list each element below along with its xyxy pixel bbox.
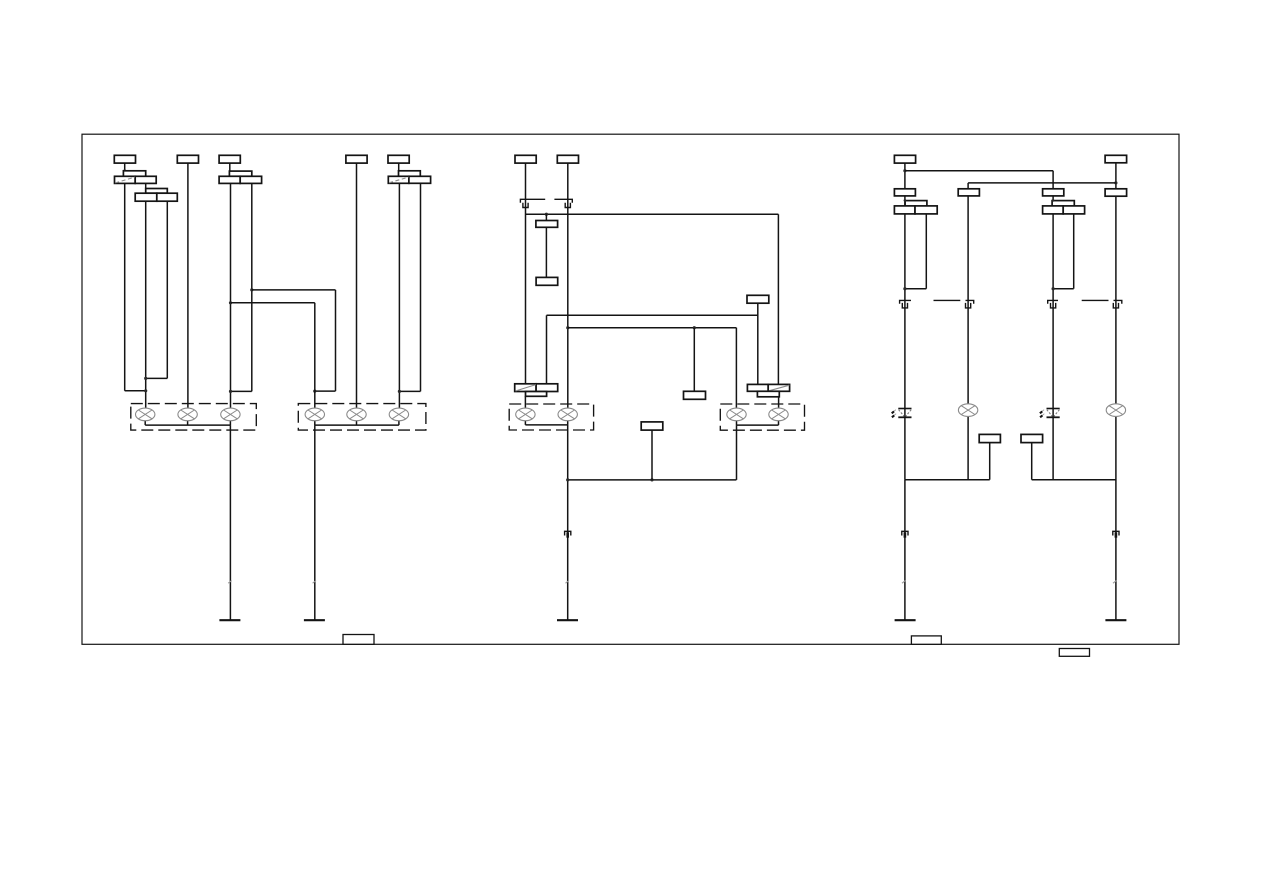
- connector T5: [388, 155, 409, 163]
- lamp L1: [136, 408, 155, 421]
- wire F6 stub: [989, 443, 991, 480]
- lamp L9: [516, 408, 535, 421]
- connector T2: [177, 155, 198, 163]
- wire branch B down to lamp L4: [314, 303, 316, 409]
- junction T9 rail: [1114, 181, 1117, 184]
- wire tap to fuse: [545, 214, 547, 220]
- switch S3 contact left: [219, 176, 240, 183]
- junction L6 feed: [398, 390, 401, 393]
- lamp L6: [389, 408, 408, 421]
- lamp L12: [1106, 404, 1125, 417]
- wire lamp L1 stub: [144, 421, 146, 426]
- wire lamp L4 stub: [314, 421, 316, 426]
- wire S3 right down: [251, 183, 253, 391]
- wire rail y183 down: [967, 183, 969, 189]
- connector B: [958, 189, 979, 196]
- connector T4: [346, 155, 367, 163]
- wire branch A horizontal: [252, 289, 336, 291]
- wire elbow S3 right join: [231, 390, 252, 392]
- wire T4 to lamp L5: [356, 163, 358, 408]
- wire box4 down: [736, 425, 738, 480]
- wire lamp L7 stub: [736, 421, 738, 426]
- switch S4 armature: [399, 171, 421, 177]
- wire return bus: [568, 479, 737, 481]
- wire S8 left down: [1052, 214, 1054, 480]
- wire Tm down to switch S6: [757, 303, 759, 384]
- inline connector C6 male: [1051, 303, 1056, 308]
- inline connector C5 male: [966, 303, 971, 308]
- wire lamp L3 stub: [229, 421, 231, 426]
- junction fuse tap: [545, 213, 548, 216]
- inline connector C8: [902, 531, 908, 537]
- border frame: [82, 134, 1179, 644]
- connector on frame bottom right: [911, 636, 941, 644]
- wire lamp L2 stub: [187, 421, 189, 426]
- inline connector C4 link: [934, 299, 961, 301]
- switch S4 contact left: [388, 176, 409, 183]
- wire return bus right 2: [1032, 479, 1116, 481]
- switch S2 contact left: [135, 193, 157, 201]
- switch S1 contact left: [115, 176, 136, 183]
- wire branch B horizontal: [231, 302, 315, 304]
- switch S1 contact right: [135, 176, 156, 183]
- connector F6: [979, 434, 1000, 442]
- connector T3: [219, 155, 240, 163]
- connector on frame bottom left: [343, 635, 374, 645]
- inline connector C6 link: [1082, 299, 1109, 301]
- lamp L8: [769, 408, 788, 421]
- lamp L7: [727, 408, 746, 421]
- connector T9: [1105, 155, 1127, 163]
- wire lamp L10 stub: [567, 421, 569, 425]
- junction S1 top: [123, 169, 126, 172]
- connector Tm: [747, 295, 769, 303]
- connector T1: [114, 155, 135, 163]
- wire F1 to F2: [545, 227, 547, 277]
- inline connector C1 male: [523, 203, 528, 208]
- connector T6: [515, 155, 536, 163]
- junction S7 top: [904, 199, 907, 202]
- ground G1: [219, 619, 240, 621]
- wire horizontal y328: [568, 327, 737, 329]
- inline connector C2 female: [554, 199, 572, 202]
- wire elbow to lamp L1: [125, 390, 146, 392]
- wire S1 left down: [124, 183, 126, 390]
- wire T6 down: [525, 163, 527, 384]
- fuse F1: [536, 221, 558, 228]
- LED D1: [892, 409, 912, 418]
- switch S7 contact left: [894, 206, 915, 214]
- switch S1 armature: [123, 171, 145, 177]
- connector A: [894, 189, 915, 196]
- wire D down: [1115, 196, 1117, 620]
- wire box1 to ground: [229, 425, 231, 620]
- wire tap to relay: [693, 328, 695, 392]
- wire S7 right down: [925, 214, 927, 289]
- junction L1 feed: [144, 389, 147, 392]
- switch S5 armature: [526, 392, 547, 397]
- switch S3 armature: [229, 171, 251, 176]
- wire lamp L9 stub: [524, 421, 526, 425]
- junction relay tap: [693, 326, 696, 329]
- wire lamp L5 stub: [356, 421, 358, 426]
- inline connector C6 female: [1048, 300, 1058, 303]
- junction T8 rail: [903, 169, 906, 172]
- inline connector C7 male: [1113, 303, 1118, 308]
- wire y315 down to switch S5: [546, 315, 548, 384]
- wire S5 to lamp L9: [524, 396, 526, 408]
- inline connector C4 female: [900, 300, 911, 303]
- junction branch A: [250, 288, 253, 291]
- wire A to switch S7: [904, 196, 906, 207]
- lamp L10: [558, 408, 577, 421]
- lamp L5: [347, 408, 366, 421]
- wire LED D1 to ground: [904, 480, 906, 620]
- lamp L2: [178, 408, 197, 421]
- lamp L3: [221, 408, 240, 421]
- wire lamp L8 stub: [778, 421, 780, 426]
- wire elbow S4 right join: [399, 390, 420, 392]
- connector below frame: [1059, 649, 1089, 657]
- wire elbow S2 right join: [146, 377, 168, 379]
- junction L3 feed: [229, 390, 232, 393]
- wire long feed down: [777, 214, 779, 384]
- wire S1 right to S2: [145, 183, 147, 188]
- wire rail y183: [968, 182, 1116, 184]
- switch S6 blade: [769, 385, 789, 391]
- wire rail y171: [905, 170, 1053, 172]
- wire box2 to ground: [314, 425, 316, 620]
- ground G3: [557, 619, 578, 621]
- junction box3 ground: [566, 478, 569, 481]
- switch S4 blade: [389, 177, 409, 183]
- switch S5 contact right: [536, 384, 558, 392]
- inline connector C2 male: [565, 203, 570, 208]
- wire bus box4: [737, 424, 779, 426]
- wire S7 left down: [904, 214, 906, 480]
- switch S8 armature: [1052, 201, 1074, 207]
- wire return bus right 1: [905, 479, 990, 481]
- splice tick left 1: [228, 581, 231, 584]
- switch S6 contact left: [747, 384, 768, 391]
- junction S8 join: [1052, 287, 1055, 290]
- wire S2 left to lamp L1: [145, 201, 147, 408]
- relay F5: [684, 391, 706, 399]
- inline connector C1 female: [520, 199, 545, 202]
- wire S2 right down: [166, 201, 168, 378]
- switch S2 armature: [146, 189, 168, 194]
- wire T7 down: [567, 163, 569, 408]
- switch S7 contact right: [915, 206, 937, 214]
- wire bus box1: [145, 424, 230, 426]
- wire S8 right down: [1073, 214, 1075, 289]
- inline connector C9: [1113, 531, 1119, 537]
- wire F7 stub: [1031, 443, 1033, 480]
- switch S8 contact right: [1063, 206, 1084, 214]
- wire elbow S8 join: [1053, 288, 1074, 290]
- junction return tap: [650, 478, 653, 481]
- wire S4 left to lamp L6: [398, 183, 400, 408]
- connector F7: [1021, 434, 1043, 442]
- switch S7 armature: [905, 201, 927, 207]
- wire T3 to switch S3: [229, 163, 231, 171]
- switch S6 contact right: [768, 384, 789, 391]
- wire branch A down: [335, 290, 337, 391]
- lamp unit box 1: [131, 404, 256, 431]
- wire S6 to lamp L8: [778, 397, 780, 409]
- wire box3 to ground: [567, 425, 569, 620]
- switch S4 contact right: [409, 176, 431, 183]
- wire T5 to switch S4: [398, 163, 400, 171]
- splice tick right 1: [902, 581, 905, 584]
- junction branch B: [229, 301, 232, 304]
- ground G5: [1105, 619, 1126, 621]
- lamp unit box 4: [720, 404, 804, 430]
- wire y328 down to lamp L7: [735, 328, 737, 409]
- wire branch A elbow: [315, 390, 336, 392]
- wire S4 right down: [420, 183, 422, 391]
- junction rail right: [566, 326, 569, 329]
- inline connector C3: [565, 531, 571, 537]
- wire T8 down: [904, 163, 906, 189]
- connector T7: [557, 155, 578, 163]
- wire T2 to lamp L2: [187, 163, 189, 408]
- lamp unit box 2: [298, 404, 426, 431]
- wire elbow S7 join: [905, 288, 926, 290]
- ground G2: [304, 619, 325, 621]
- connector D: [1105, 189, 1127, 196]
- switch S8 contact left: [1043, 206, 1064, 214]
- inline connector C4 male: [902, 303, 907, 308]
- switch S5 blade: [516, 385, 536, 391]
- wire tap up to connector: [651, 430, 653, 480]
- inline connector C5 female: [966, 300, 974, 303]
- connector F4: [641, 422, 663, 430]
- junction S7 join: [903, 287, 906, 290]
- splice tick middle: [566, 581, 569, 584]
- switch S5 contact left: [515, 384, 536, 392]
- wire bus box3: [525, 424, 567, 426]
- switch S6 armature: [757, 391, 779, 397]
- wire lamp L6 stub: [398, 421, 400, 426]
- inline connector C7 female: [1114, 300, 1122, 303]
- connector C: [1043, 189, 1064, 196]
- switch S3 contact right: [240, 176, 261, 183]
- wire bus box2: [315, 424, 399, 426]
- wire horizontal y315: [547, 314, 758, 316]
- switch S1 blade: [115, 177, 135, 183]
- lamp L11: [958, 404, 977, 417]
- junction L4 feed: [313, 390, 316, 393]
- splice tick left 2: [313, 581, 316, 584]
- wire feed rail: [526, 213, 779, 215]
- lamp L4: [305, 408, 324, 421]
- junction S8 top: [1052, 199, 1055, 202]
- wire S3 left to lamp L3: [230, 183, 232, 408]
- wire rail y171 down: [1052, 171, 1054, 189]
- junction S2 join: [144, 377, 147, 380]
- wire C to switch S8: [1052, 196, 1054, 207]
- wire T9 down: [1115, 163, 1117, 189]
- switch S2 contact right: [157, 193, 178, 201]
- wire T1 to switch S1: [124, 163, 126, 171]
- splice tick right 2: [1113, 581, 1116, 584]
- lamp unit box 3: [509, 404, 593, 430]
- ground G4: [895, 619, 916, 621]
- resistor F2: [536, 277, 558, 285]
- wire B down: [967, 196, 969, 480]
- LED D2: [1040, 409, 1060, 418]
- connector T8: [894, 155, 915, 163]
